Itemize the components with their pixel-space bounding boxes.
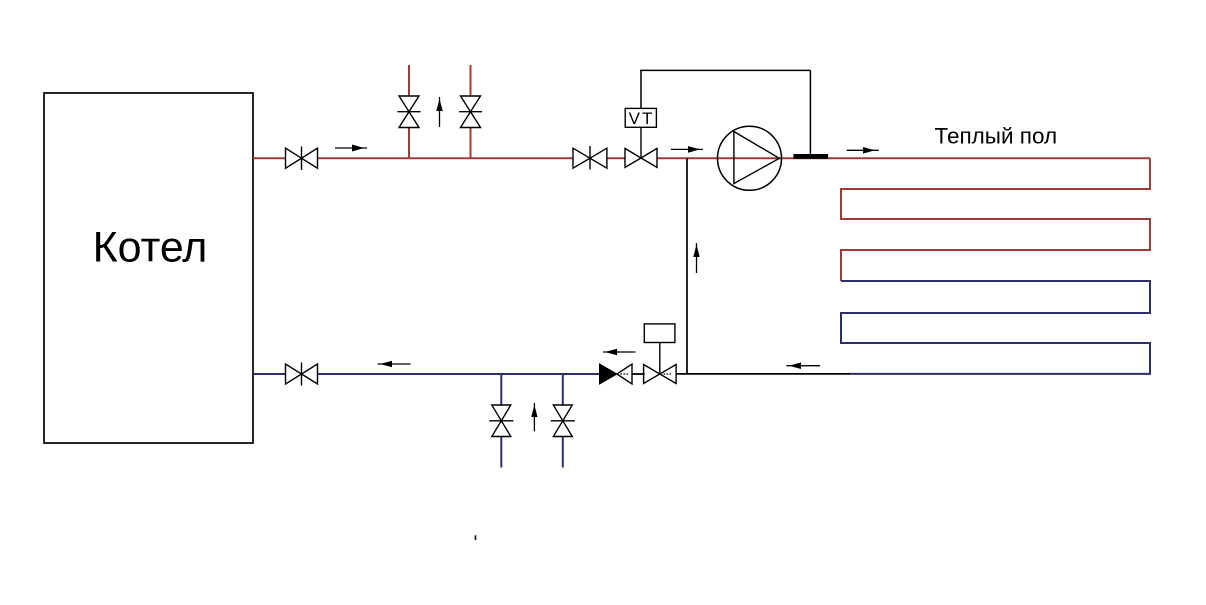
wire supply red segment valve3 to serpentine (657, 157, 1150, 159)
sensor bar black on supply (793, 154, 828, 159)
pump circulation (718, 126, 782, 190)
arrow flow up beside bypass (693, 243, 699, 273)
svg-text:Котел: Котел (93, 224, 208, 272)
wire red branch stem left upper (408, 65, 410, 96)
wire navy drain stem left lower (500, 437, 502, 468)
arrow flow up between drain valves (531, 403, 537, 431)
wire control loop horizontal (640, 69, 810, 71)
stray tick mark bottom (475, 535, 477, 540)
arrow flow right after pump (847, 147, 879, 154)
valve vertical drain left (489, 405, 513, 437)
wire navy drain stem left upper (500, 374, 502, 405)
actuator box empty (644, 324, 675, 343)
arrow flow right after boiler valve (335, 145, 367, 152)
valve gate supply second (573, 146, 607, 170)
wire navy drain stem right lower (562, 437, 564, 468)
valve three-way VT (625, 127, 657, 167)
boiler Котел (44, 93, 253, 443)
check valve on return (600, 364, 633, 384)
valve gate supply near boiler (286, 147, 318, 171)
wire serpentine red coil (841, 158, 1150, 281)
valve balancing with actuator box (644, 343, 677, 384)
wire red branch stem left lower (408, 128, 410, 159)
valve gate return near boiler (286, 363, 318, 386)
svg-text:Теплый пол: Теплый пол (935, 124, 1058, 149)
wire supply red segment valve to valve2 (318, 157, 574, 159)
arrow flow up between branch valves (436, 97, 443, 127)
wire serpentine blue coil (841, 281, 1150, 374)
arrow flow right before pump (671, 146, 703, 153)
valve vertical branch left (398, 96, 421, 128)
wire supply red segment valve2 to valve3 (607, 157, 625, 159)
wire control loop vertical right (809, 70, 811, 154)
wire control loop vertical above VT (640, 70, 642, 108)
wire return navy segment valve to check valve (318, 373, 600, 375)
wire navy drain stem right upper (562, 374, 564, 405)
arrow flow left on return near boiler (378, 361, 411, 368)
svg-text:VT: VT (629, 109, 655, 128)
arrow flow left on return right (786, 362, 820, 369)
wire bypass vertical (686, 158, 688, 374)
dots inside check valve (621, 373, 629, 375)
wire return black segment check valve to balancing valve (632, 373, 645, 375)
dots inside balancing valve (664, 373, 672, 375)
wire return black segment bypass to serpentine (676, 373, 850, 375)
wire supply red segment boiler to valve (253, 157, 286, 159)
valve vertical drain right (551, 405, 575, 437)
wire return navy segment boiler to valve (253, 373, 286, 375)
actuator box VT (625, 108, 656, 127)
arrow flow left above check valve (603, 349, 636, 356)
valve vertical branch right (459, 96, 482, 128)
wire red branch stem right lower (470, 128, 472, 159)
wire red branch stem right upper (470, 65, 472, 96)
